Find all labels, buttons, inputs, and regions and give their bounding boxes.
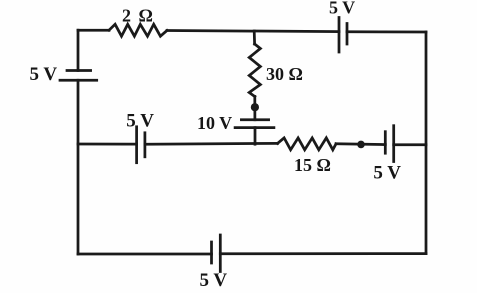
- wire top-left segment: [78, 29, 109, 32]
- battery 5V right: short plate: [384, 132, 387, 154]
- battery 5V middle: long plate: [135, 127, 138, 163]
- wire bottom-right segment: [220, 252, 426, 255]
- wire top-middle segment: [167, 31, 339, 32]
- battery 5V middle: short plate: [144, 133, 147, 157]
- svg-text:10 V: 10 V: [197, 113, 232, 133]
- wire middle-left segment: [78, 143, 137, 146]
- svg-text:5 V: 5 V: [30, 64, 58, 85]
- svg-text:5 V: 5 V: [329, 0, 355, 18]
- svg-text:30 Ω: 30 Ω: [266, 64, 303, 84]
- wire left side lower: [77, 80, 80, 254]
- wire bottom-left segment: [78, 253, 212, 256]
- wire middle segment to 15 ohm: [145, 142, 278, 146]
- wire middle branch lower: [254, 128, 257, 145]
- wire middle branch upper: [253, 31, 256, 44]
- svg-text:15 Ω: 15 Ω: [294, 155, 331, 175]
- node junction after 15 ohm: [357, 141, 365, 149]
- wire right side: [425, 32, 428, 254]
- battery 5V left: short plate: [67, 69, 91, 72]
- wire middle segment to node: [336, 142, 385, 146]
- resistor 15 ohm: [278, 138, 337, 150]
- battery 5V bottom: short plate: [210, 242, 213, 263]
- wire middle branch to node: [253, 97, 256, 120]
- battery 5V right: long plate: [392, 126, 395, 162]
- battery 10V: long plate: [235, 126, 274, 129]
- battery 5V left: long plate: [60, 79, 97, 82]
- svg-text:5 V: 5 V: [200, 270, 228, 291]
- resistor 2 ohm: [109, 24, 167, 36]
- wire top-right segment: [347, 30, 426, 33]
- battery 5V top: long plate: [338, 18, 341, 53]
- battery 10V: short plate: [241, 118, 268, 121]
- wire left side upper: [77, 30, 80, 70]
- node junction above 10V battery: [251, 103, 259, 111]
- battery 5V top: short plate: [346, 24, 349, 45]
- svg-text:5 V: 5 V: [373, 162, 401, 183]
- svg-text:2 Ω: 2 Ω: [122, 5, 153, 25]
- battery 5V bottom: long plate: [219, 235, 222, 272]
- wire middle-right segment: [394, 143, 426, 146]
- resistor 30 ohm: [249, 44, 260, 97]
- svg-text:5 V: 5 V: [126, 110, 154, 131]
